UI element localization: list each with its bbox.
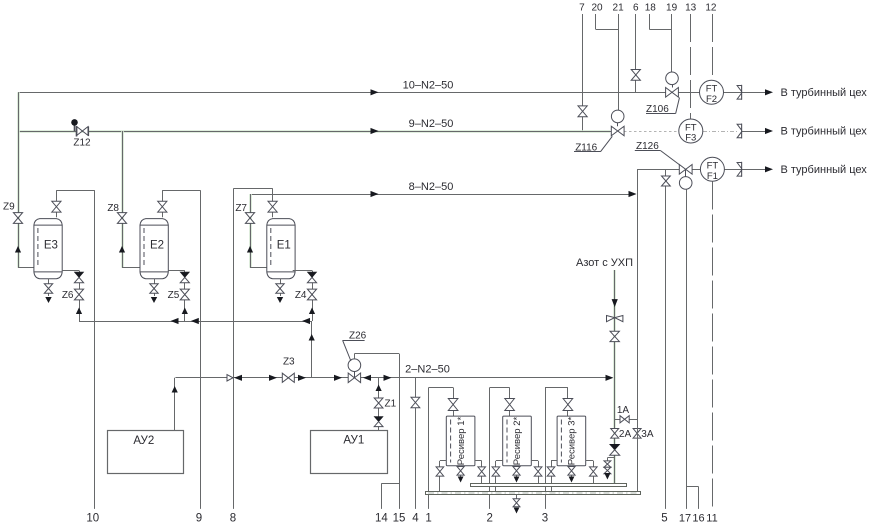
wire feed to E1 via Z7 xyxy=(250,194,267,268)
junction arrows at line 8 crossing xyxy=(227,375,242,381)
wire Z26 bypass to line 15 xyxy=(354,354,399,359)
svg-text:5: 5 xyxy=(661,513,667,525)
wire receiver 1 center vent xyxy=(460,466,462,477)
wire Z1 branch xyxy=(378,378,380,431)
svg-text:E1: E1 xyxy=(277,240,291,252)
valve receiver 1 inlet xyxy=(448,399,458,411)
valve receiver 2 right outlet xyxy=(534,467,542,476)
svg-text:20: 20 xyxy=(591,3,603,14)
svg-text:10: 10 xyxy=(86,513,99,525)
valve receiver 2 left outlet xyxy=(492,467,500,476)
manifold lower bar xyxy=(426,492,641,495)
wire receiver 2 center vent xyxy=(516,466,518,477)
block AU1 xyxy=(311,431,388,474)
pipe 2-N2-50 xyxy=(175,364,611,378)
node line 11 (dashed) xyxy=(706,182,717,525)
wire receiver 2 right outlet xyxy=(531,461,538,484)
check valve E3 outlet xyxy=(74,272,83,283)
wire AU2 riser xyxy=(174,378,176,431)
wire collector riser to line 2 xyxy=(311,321,313,378)
node line 12 (dashed) xyxy=(705,3,717,81)
svg-text:Ресивер 3*: Ресивер 3* xyxy=(567,417,578,466)
svg-text:F3: F3 xyxy=(685,133,696,144)
drain under manifold xyxy=(513,495,520,514)
wire E3 top loop to line 10 riser xyxy=(56,190,94,217)
vent valves and arrow xyxy=(604,461,611,480)
flexible joint symbol xyxy=(607,316,623,322)
arrow line 2 into nitrogen riser xyxy=(606,375,614,381)
svg-text:Ресивер 2*: Ресивер 2* xyxy=(512,417,523,466)
svg-text:4: 4 xyxy=(412,513,419,525)
node line 1 xyxy=(425,388,431,525)
valve on line 5 xyxy=(662,176,671,186)
valve E1 top xyxy=(268,201,277,212)
svg-text:11: 11 xyxy=(706,513,717,525)
flow arrow riser up xyxy=(309,334,315,341)
node line 2 xyxy=(486,388,492,525)
svg-text:7: 7 xyxy=(579,3,585,14)
flow transmitter FT F1 xyxy=(700,157,724,182)
node line 9 vertical xyxy=(196,190,202,524)
svg-text:2: 2 xyxy=(486,513,492,525)
flow arrow after Z1 junction xyxy=(384,375,392,381)
valve receiver 2 inlet xyxy=(505,399,515,411)
flow arrow Z1 up xyxy=(376,385,382,392)
svg-text:АУ2: АУ2 xyxy=(133,435,154,447)
pipe to turbine via F1 xyxy=(637,169,767,171)
node line 19 xyxy=(666,3,678,73)
wire receiver 3 center vent xyxy=(571,466,573,477)
svg-text:1A: 1A xyxy=(617,405,630,416)
svg-text:2–N2–50: 2–N2–50 xyxy=(405,364,450,376)
valve 1A xyxy=(617,405,630,423)
flow arrow to E2 xyxy=(119,246,125,253)
arrow to turbine F2 xyxy=(765,87,867,99)
wire feed to receiver 2 xyxy=(490,388,510,417)
node line 7 xyxy=(579,3,585,131)
svg-text:13: 13 xyxy=(685,3,697,14)
flow arrow AU2 riser xyxy=(172,386,178,393)
node line 8 vertical xyxy=(230,188,236,524)
svg-text:8–N2–50: 8–N2–50 xyxy=(409,181,454,193)
svg-text:6: 6 xyxy=(633,3,639,14)
label nitrogen from UKhP xyxy=(576,257,633,269)
vessel E1 xyxy=(267,219,295,279)
node line 4 xyxy=(412,378,419,525)
node line 13 (dashed) xyxy=(685,3,697,119)
wire riser to Z126 header xyxy=(637,169,639,491)
flow arrow on line 8 xyxy=(371,191,379,197)
flow arrow E3 chain xyxy=(76,308,82,315)
wire E2 right outlet xyxy=(169,271,185,322)
flow arrow collector left 3 xyxy=(302,318,310,324)
vessel E2 xyxy=(140,219,168,279)
svg-text:Z1: Z1 xyxy=(385,399,397,410)
block AU2 xyxy=(108,431,184,474)
svg-text:Z4: Z4 xyxy=(295,290,307,301)
svg-text:9: 9 xyxy=(196,513,202,525)
svg-text:F2: F2 xyxy=(706,94,717,105)
wire receiver 3 right outlet xyxy=(586,461,594,484)
valve receiver 3 inlet xyxy=(563,399,573,411)
valve E2 top xyxy=(158,201,167,212)
wire receiver 3 left outlet xyxy=(551,461,557,492)
node line 5 xyxy=(661,169,667,524)
valve 2A xyxy=(611,429,632,440)
valve Z5 xyxy=(168,289,190,301)
receiver &#1056;&#1077;&#1089;&#1080;&#1074;&#1077;&#1088; 3* xyxy=(557,416,586,466)
control valve Z116 with actuator xyxy=(574,110,624,153)
flow arrow after Z26 xyxy=(363,375,371,381)
node line 6 xyxy=(633,3,639,93)
svg-text:16: 16 xyxy=(692,513,704,525)
pipe 10-N2-50 xyxy=(18,79,767,92)
wire E1 top loop to line 8 riser xyxy=(234,188,273,217)
flow arrow to E3 xyxy=(15,246,21,253)
node line 16 xyxy=(686,487,705,525)
manifold upper bar xyxy=(471,484,627,487)
svg-text:Z7: Z7 xyxy=(235,203,247,214)
svg-text:Z12: Z12 xyxy=(73,138,91,149)
svg-text:3A: 3A xyxy=(641,429,654,440)
wire E3 right outlet xyxy=(62,271,79,322)
arrow line 8 into riser xyxy=(629,191,637,197)
valve E3 top xyxy=(52,201,61,212)
svg-text:Z26: Z26 xyxy=(349,331,367,342)
svg-text:E3: E3 xyxy=(44,240,58,252)
valve Z6 xyxy=(62,289,84,301)
control valve Z106 with actuator xyxy=(646,72,680,115)
flow transmitter FT F3 xyxy=(679,119,703,144)
svg-text:2A: 2A xyxy=(619,429,632,440)
flow arrow E2 chain xyxy=(182,308,188,315)
pipe 8-N2-50 xyxy=(250,181,631,195)
receiver &#1056;&#1077;&#1089;&#1080;&#1074;&#1077;&#1088; 2* xyxy=(503,416,532,466)
node line 10 vertical xyxy=(86,190,99,524)
svg-text:Z9: Z9 xyxy=(3,202,15,213)
svg-text:E2: E2 xyxy=(150,240,164,252)
check valve E1 outlet xyxy=(307,272,316,283)
svg-text:12: 12 xyxy=(705,3,717,14)
valve Z3 xyxy=(282,357,295,383)
flag F2 xyxy=(737,85,742,100)
flow arrow before Z3 xyxy=(269,375,277,381)
svg-text:17: 17 xyxy=(679,513,691,525)
wire feed to receiver 3 xyxy=(545,388,568,417)
valve receiver 2 vent xyxy=(513,467,520,483)
check valve E2 outlet xyxy=(180,272,189,283)
flow arrow before Z26 xyxy=(334,375,342,381)
svg-text:В турбинный цех: В турбинный цех xyxy=(781,126,868,138)
wire left feed to E3 xyxy=(18,92,34,267)
valve Z9 xyxy=(3,202,23,224)
flow arrow collector left 2 xyxy=(191,318,199,324)
valve Z8 xyxy=(107,203,126,223)
wire receiver 2 left outlet xyxy=(496,461,503,492)
valve 3A xyxy=(633,429,654,440)
flow arrow after Z3 xyxy=(298,375,306,381)
valve Z7 xyxy=(235,203,254,223)
node line 20 xyxy=(591,3,618,30)
flow arrow to E1 xyxy=(247,246,253,253)
wire receiver 1 left outlet xyxy=(440,461,447,492)
check valve above AU1 xyxy=(374,417,383,427)
svg-text:18: 18 xyxy=(645,3,657,14)
pipe 9-N2-50 xyxy=(18,118,767,132)
flow arrow collector left 1 xyxy=(171,318,179,324)
flow arrow on line 10 xyxy=(371,89,379,95)
svg-text:8: 8 xyxy=(230,513,236,525)
flag F3 xyxy=(737,124,742,139)
node line 14 xyxy=(375,483,399,524)
wire E1 right outlet xyxy=(293,271,313,322)
svg-text:14: 14 xyxy=(375,513,388,525)
valve receiver 1 right outlet xyxy=(478,467,486,476)
wire receiver 1 right outlet xyxy=(475,461,482,484)
svg-text:15: 15 xyxy=(393,513,406,525)
valve on line 7 xyxy=(578,106,587,117)
receiver &#1056;&#1077;&#1089;&#1080;&#1074;&#1077;&#1088; 1* xyxy=(446,416,475,466)
node line 3 xyxy=(542,388,548,525)
drain valve under E3 xyxy=(44,279,52,303)
valve on line 6 xyxy=(631,70,640,81)
wire feed to receiver 1 xyxy=(429,388,454,417)
svg-text:F1: F1 xyxy=(707,171,718,182)
valve Z1 xyxy=(374,398,396,410)
svg-text:АУ1: АУ1 xyxy=(343,435,364,447)
wire vent branch xyxy=(607,458,614,475)
flow arrow nitrogen down xyxy=(612,299,618,307)
flow arrow on line 9 xyxy=(371,128,379,134)
wire collector header xyxy=(79,321,312,323)
drain valve under E2 xyxy=(150,279,158,303)
valve receiver 1 vent xyxy=(457,467,464,483)
valve Z4 xyxy=(295,289,317,301)
flag F1 xyxy=(737,162,742,177)
flow transmitter FT F2 xyxy=(700,80,724,105)
svg-text:Ресивер 1*: Ресивер 1* xyxy=(456,417,467,466)
drain valve under E1 xyxy=(276,279,284,303)
valve Z12 with actuator xyxy=(71,119,91,148)
node line 17 xyxy=(679,189,691,524)
svg-text:В турбинный цех: В турбинный цех xyxy=(781,87,868,99)
svg-text:Азот с УХП: Азот с УХП xyxy=(576,257,633,269)
valve receiver 3 right outlet xyxy=(590,467,598,476)
svg-text:9–N2–50: 9–N2–50 xyxy=(409,118,454,130)
node line 18 xyxy=(645,3,672,30)
pipe nitrogen riser xyxy=(613,270,616,483)
valve receiver 3 left outlet xyxy=(547,467,555,476)
svg-text:Z8: Z8 xyxy=(107,203,119,214)
svg-text:3: 3 xyxy=(542,513,548,525)
wire feed to E2 xyxy=(122,131,140,268)
node line 21 xyxy=(613,3,625,111)
svg-text:Z5: Z5 xyxy=(168,290,180,301)
check valve below 2A xyxy=(610,444,620,455)
valve on nitrogen riser xyxy=(610,331,619,341)
arrow to turbine F1 xyxy=(765,164,867,176)
svg-text:Z6: Z6 xyxy=(62,290,74,301)
svg-text:Z3: Z3 xyxy=(283,357,295,368)
wire 1A crossover xyxy=(615,419,637,421)
arrow to turbine F3 xyxy=(765,126,867,138)
control valve Z126 with bottom actuator xyxy=(635,141,692,189)
valve receiver 1 left outlet xyxy=(436,467,444,476)
svg-text:10–N2–50: 10–N2–50 xyxy=(403,79,454,91)
flow arrow E1 chain xyxy=(309,308,315,315)
control valve Z26 with actuator xyxy=(343,331,367,383)
vessel E3 xyxy=(34,219,62,279)
svg-text:1: 1 xyxy=(425,513,431,525)
svg-text:19: 19 xyxy=(666,3,678,14)
svg-text:В турбинный цех: В турбинный цех xyxy=(781,164,868,176)
svg-text:21: 21 xyxy=(613,3,625,14)
wire E2 top loop to line 9 riser xyxy=(162,190,200,217)
node line 15 xyxy=(393,354,406,525)
valve receiver 3 vent xyxy=(568,467,575,483)
valve on line 4 xyxy=(411,397,420,407)
